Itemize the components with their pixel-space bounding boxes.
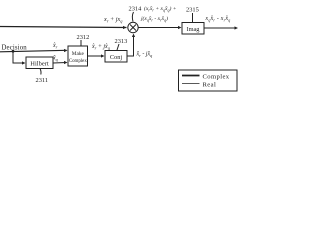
- wire decision to hilbert: [13, 51, 26, 64]
- node label x̂_r + jx̂_q: [91, 44, 110, 51]
- legend real line: [182, 83, 200, 85]
- leader 2312: [80, 40, 82, 46]
- block Make Complex U2312: [68, 46, 88, 66]
- wire makecomplex to conj: [88, 54, 105, 57]
- svg-text:j(xqx̂r - xrx̂q): j(xqx̂r - xrx̂q): [140, 15, 168, 22]
- svg-text:Complex: Complex: [69, 59, 87, 64]
- legend box: [179, 70, 238, 91]
- svg-text:x̂r: x̂r: [52, 43, 58, 50]
- wire multiplier to Imag: [138, 26, 181, 29]
- svg-text:2312: 2312: [77, 34, 90, 41]
- wire decision main: [0, 49, 68, 52]
- svg-text:Conj: Conj: [110, 54, 122, 61]
- node label output x_q x̂_r - x_r x̂_q: [205, 16, 231, 22]
- node label product formula line2: [140, 15, 168, 22]
- label 2312: [77, 34, 90, 41]
- svg-text:Real: Real: [203, 82, 217, 89]
- svg-text:2314: 2314: [129, 5, 143, 12]
- svg-text:xqx̂r - xrx̂q: xqx̂r - xrx̂q: [205, 16, 231, 22]
- node label x̂_r: [52, 43, 58, 50]
- block Imag U2315: [182, 23, 204, 35]
- leader 2313: [117, 44, 119, 50]
- wire main input top: [0, 26, 127, 29]
- svg-text:x̂r + jx̂q: x̂r + jx̂q: [91, 44, 110, 51]
- legend label Complex: [203, 74, 230, 81]
- legend label Real: [203, 82, 217, 89]
- svg-text:x̂q: x̂q: [52, 56, 58, 63]
- leader 2315: [192, 13, 194, 22]
- svg-text:Decision: Decision: [2, 44, 28, 51]
- node label x̂_r - jx̂_q: [136, 52, 153, 59]
- node label x̂_q: [52, 56, 58, 63]
- wire hilbert to makecomplex: [53, 61, 68, 64]
- svg-text:x̂r - jx̂q: x̂r - jx̂q: [136, 52, 153, 59]
- node label x_r + jx_q: [103, 16, 123, 24]
- legend complex line: [182, 75, 200, 77]
- label 2315: [186, 6, 199, 13]
- label 2313: [115, 38, 128, 45]
- label 2311: [36, 77, 49, 84]
- label 2314: [129, 5, 143, 12]
- block Conj U2313: [105, 51, 127, 63]
- svg-text:xr + jxq: xr + jxq: [103, 16, 123, 24]
- multiplier U2314: [128, 22, 138, 32]
- leader 2311: [40, 69, 41, 75]
- junction dot: [12, 50, 15, 53]
- node label Decision: [2, 44, 28, 51]
- svg-text:Complex: Complex: [203, 74, 230, 81]
- svg-text:2313: 2313: [115, 38, 128, 45]
- wire output: [204, 26, 238, 29]
- svg-text:Make: Make: [72, 51, 85, 57]
- block Hilbert U2311: [26, 57, 53, 69]
- wire conj to multiplier: [127, 34, 135, 57]
- svg-text:Imag: Imag: [187, 26, 201, 33]
- svg-text:2315: 2315: [186, 6, 199, 13]
- node label product formula line1: [144, 5, 177, 12]
- leader 2314: [132, 12, 133, 22]
- svg-text:2311: 2311: [36, 77, 49, 84]
- svg-text:Hilbert: Hilbert: [30, 60, 49, 67]
